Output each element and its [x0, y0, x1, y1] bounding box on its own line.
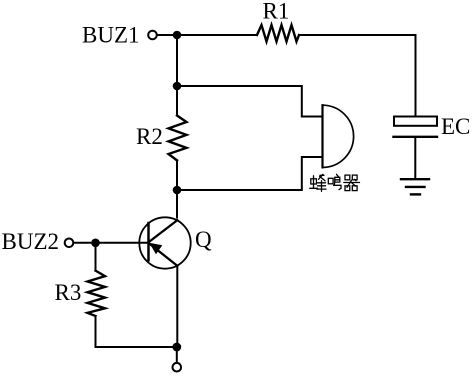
wire buzzer top lead	[177, 86, 322, 117]
junction node buzzer top	[173, 82, 182, 91]
wire base node to R3	[95, 243, 97, 271]
buzzer LS1 bar	[321, 105, 323, 167]
wire R2 to collector	[176, 160, 178, 217]
transistor Q collector stroke	[149, 220, 178, 242]
svg-text:Q: Q	[195, 227, 212, 252]
transistor Q base bar	[147, 223, 150, 260]
resistor R1	[257, 25, 299, 42]
wire bottom junction to terminal	[176, 347, 178, 363]
wire main vertical upper	[176, 35, 178, 116]
svg-text:EC: EC	[441, 114, 470, 139]
capacitor EC bottom plate	[394, 136, 438, 138]
label 蜂鸣器 (buzzer) drawn strokes	[310, 174, 360, 191]
char 蜂	[310, 174, 326, 191]
resistor R3	[88, 271, 106, 316]
junction node base	[91, 239, 100, 248]
buzzer LS1 dome	[323, 105, 354, 167]
wire R3 to bottom junction	[96, 316, 177, 347]
junction node bottom	[172, 343, 181, 352]
wire BUZ1 to R1	[157, 34, 257, 36]
svg-text:BUZ2: BUZ2	[2, 229, 60, 254]
char 鸣	[328, 174, 341, 189]
junction node buzzer bottom	[173, 186, 182, 195]
wire R1 to EC	[299, 35, 416, 117]
capacitor EC top plate	[394, 117, 437, 126]
wire BUZ2 to base	[74, 242, 149, 244]
wire EC to ground	[414, 138, 416, 178]
char 器	[344, 175, 360, 191]
resistor R2	[169, 116, 187, 161]
transistor Q circle	[139, 217, 190, 268]
svg-text:R3: R3	[55, 280, 82, 305]
svg-text:BUZ1: BUZ1	[82, 23, 140, 48]
terminal bottom	[173, 363, 182, 372]
svg-text:R1: R1	[263, 0, 290, 24]
transistor Q emitter arrow	[149, 243, 162, 254]
ground	[401, 179, 429, 194]
transistor Q emitter stroke	[149, 243, 178, 266]
terminal BUZ2	[65, 239, 74, 248]
wire buzzer bottom lead	[177, 157, 322, 190]
wire emitter down	[176, 266, 178, 347]
junction node top	[173, 31, 182, 40]
terminal BUZ1	[148, 31, 157, 40]
svg-text:R2: R2	[136, 124, 163, 149]
